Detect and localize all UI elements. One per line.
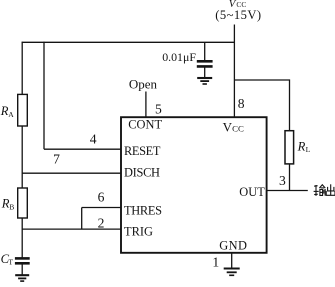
resistor RA xyxy=(18,94,28,126)
svg-text:Open: Open xyxy=(129,76,158,91)
svg-text:CONT: CONT xyxy=(128,118,162,132)
svg-text:1: 1 xyxy=(212,254,219,269)
wire left rail (RA-RB-CT chain) xyxy=(21,42,23,258)
svg-text:5: 5 xyxy=(155,102,162,117)
svg-text:R: R xyxy=(297,140,306,154)
wire capacitor C1 bottom stub xyxy=(204,68,206,78)
svg-text:RESET: RESET xyxy=(124,144,161,158)
ground under CT xyxy=(15,275,29,281)
svg-text:8: 8 xyxy=(238,96,245,111)
wire branch to RL xyxy=(234,80,289,131)
wire CT bottom stub xyxy=(21,264,23,274)
svg-text:L: L xyxy=(306,145,311,154)
ground at pin 1 xyxy=(224,269,240,276)
wire THRES pin 6 xyxy=(82,207,121,209)
wire Vcc rail vertical xyxy=(233,25,235,118)
svg-text:7: 7 xyxy=(53,152,60,167)
svg-text:0.01μF: 0.01μF xyxy=(162,50,196,64)
ground under C1 xyxy=(197,78,212,84)
svg-text:TRIG: TRIG xyxy=(124,224,153,238)
svg-text:(5~15V): (5~15V) xyxy=(215,8,261,22)
svg-text:OUT: OUT xyxy=(239,185,265,199)
capacitor C1 0.01uF plates xyxy=(197,61,213,66)
wire OUT pin 3 xyxy=(268,190,308,192)
svg-text:DISCH: DISCH xyxy=(124,166,160,180)
wire THRES-TRIG stub xyxy=(81,208,83,230)
svg-text:B: B xyxy=(9,203,14,212)
svg-text:T: T xyxy=(8,258,13,267)
svg-text:V: V xyxy=(223,119,233,134)
wire top horizontal rail xyxy=(22,41,235,43)
wire RESET pin 4 xyxy=(44,148,121,150)
wire vertical to RESET xyxy=(43,42,45,150)
capacitor CT plates xyxy=(15,258,30,263)
wire TRIG pin 2 xyxy=(22,228,121,230)
wire RL bottom to OUT xyxy=(289,164,291,191)
svg-text:GND: GND xyxy=(219,239,247,253)
svg-text:2: 2 xyxy=(98,215,105,230)
IC U1 555 timer body xyxy=(121,117,267,253)
glyph chu xyxy=(330,184,332,195)
wire GND pin 1 stub xyxy=(231,253,233,268)
wire CONT pin 5 xyxy=(145,92,147,118)
glyph shu (car radical) xyxy=(314,185,318,188)
wire DISCH pin 7 xyxy=(22,172,121,174)
node output label 输出 (drawn strokes) xyxy=(314,184,335,196)
wire capacitor C1 top stub xyxy=(204,42,206,60)
svg-text:3: 3 xyxy=(279,173,286,188)
resistor RL xyxy=(285,131,294,164)
svg-text:4: 4 xyxy=(90,131,97,146)
svg-text:6: 6 xyxy=(98,190,105,205)
glyph shu (yu right part) xyxy=(319,185,325,188)
resistor RB xyxy=(18,188,28,218)
svg-text:CC: CC xyxy=(232,124,244,134)
svg-text:THRES: THRES xyxy=(124,204,162,218)
svg-text:A: A xyxy=(8,110,14,119)
